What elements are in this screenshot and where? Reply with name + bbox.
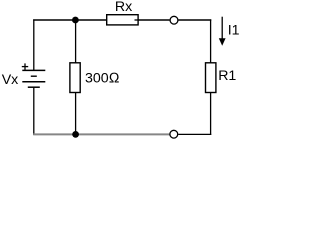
wire left rail upper	[33, 19, 35, 70]
svg-text:300Ω: 300Ω	[85, 70, 120, 86]
resistor R1	[206, 63, 216, 93]
svg-text:R1: R1	[218, 68, 236, 84]
battery source Vx plate 3 short	[28, 86, 40, 88]
resistor Rx	[107, 15, 138, 25]
resistor 300ohm	[70, 63, 80, 93]
wire right rail upper	[210, 19, 212, 62]
node terminal circle top	[170, 16, 178, 24]
wire top from left corner to Rx	[33, 19, 107, 21]
wire right rail lower	[210, 93, 212, 136]
svg-text:Rx: Rx	[115, 0, 132, 15]
current arrow I1	[221, 17, 223, 40]
wire bottom gray from left corner to bottom terminal	[33, 133, 170, 135]
battery source Vx plate 2 long	[22, 81, 45, 83]
battery plus sign	[22, 66, 28, 68]
svg-text:I1: I1	[228, 22, 240, 38]
wire Rx right lead to top terminal	[135, 19, 170, 21]
wire top terminal to right corner	[178, 19, 211, 21]
node junction dot bottom	[72, 131, 79, 138]
wire left rail lower	[33, 87, 35, 135]
node junction dot top	[72, 17, 79, 24]
svg-text:Vx: Vx	[2, 72, 19, 88]
battery source Vx plate 1 long	[22, 69, 45, 71]
wire bottom from bottom terminal to right corner	[178, 133, 211, 135]
battery minus sign	[31, 75, 37, 77]
wire tick inside Rx right end	[135, 19, 139, 21]
node terminal circle bottom	[170, 130, 178, 138]
wire middle branch lower	[75, 93, 77, 136]
wire middle branch upper	[75, 20, 77, 63]
